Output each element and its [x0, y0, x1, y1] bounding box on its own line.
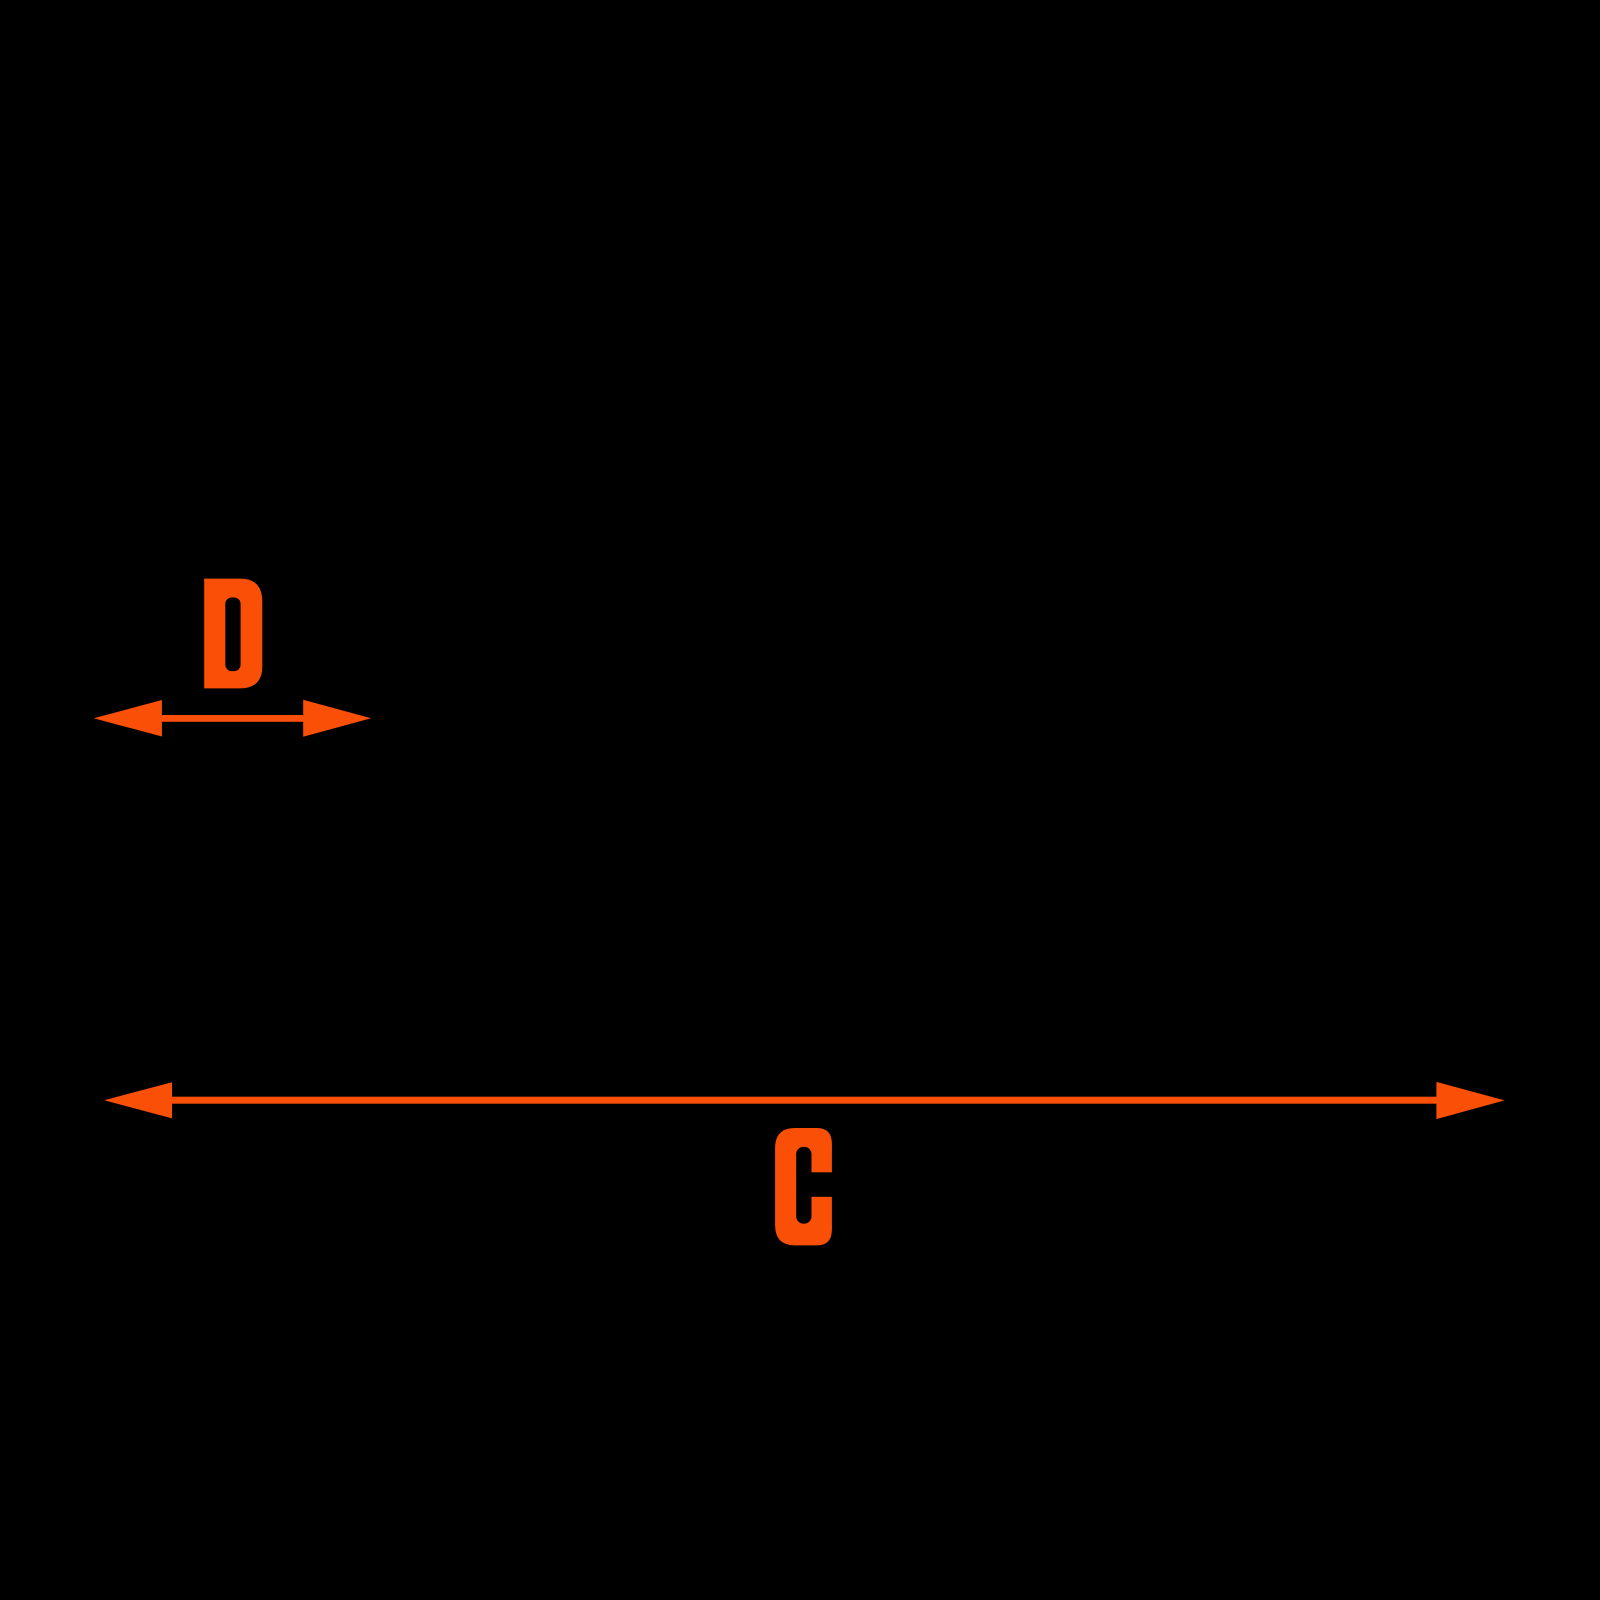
- dimension arrow C (double-headed): [104, 1082, 1504, 1119]
- dimension label D: [204, 579, 262, 689]
- dimension label C: [775, 1128, 836, 1245]
- dimension arrow D (double-headed): [94, 700, 371, 737]
